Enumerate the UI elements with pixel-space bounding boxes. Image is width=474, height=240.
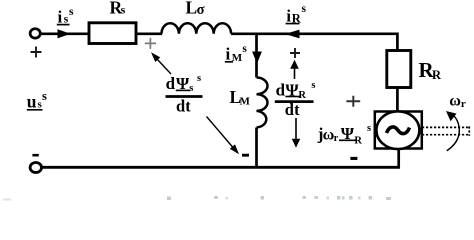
svg-text:t: t — [185, 97, 191, 116]
svg-text:d: d — [276, 80, 286, 99]
svg-text:s: s — [42, 89, 47, 103]
svg-text:d: d — [285, 100, 294, 119]
svg-text:R: R — [432, 68, 442, 82]
svg-text:s: s — [302, 3, 307, 15]
svg-text:s: s — [121, 3, 126, 17]
svg-text:M: M — [240, 95, 251, 107]
svg-text:d: d — [176, 97, 185, 116]
svg-text:d: d — [166, 74, 176, 93]
svg-text:i: i — [286, 6, 291, 25]
svg-text:s: s — [189, 83, 193, 94]
svg-text:r: r — [461, 98, 466, 110]
svg-text:σ: σ — [197, 2, 205, 18]
svg-text:L: L — [186, 0, 198, 17]
svg-text:s: s — [69, 6, 74, 18]
svg-text:u: u — [27, 92, 37, 112]
svg-text:ω: ω — [449, 92, 461, 109]
svg-text:i: i — [58, 7, 63, 26]
svg-text:s: s — [242, 43, 247, 55]
svg-text:r: r — [334, 133, 339, 144]
svg-text:i: i — [226, 45, 231, 64]
svg-text:s: s — [367, 123, 371, 134]
svg-text:M: M — [232, 52, 243, 64]
svg-text:s: s — [197, 73, 201, 84]
svg-text:s: s — [311, 80, 315, 91]
svg-text:t: t — [294, 100, 300, 119]
